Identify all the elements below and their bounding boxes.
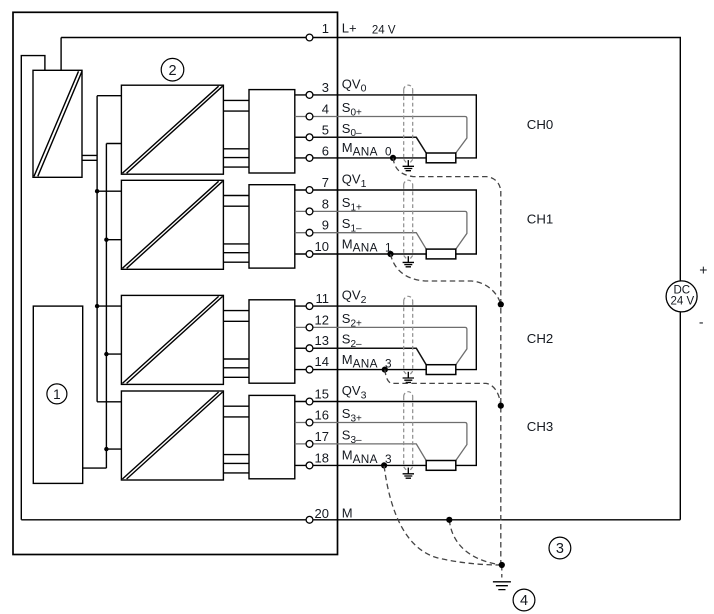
svg-text:1: 1 [53,387,61,402]
svg-text:+: + [699,262,707,278]
svg-text:10: 10 [315,239,329,254]
svg-text:24 V: 24 V [372,25,396,37]
svg-text:18: 18 [315,450,329,465]
svg-text:4: 4 [322,102,329,117]
svg-text:CH1: CH1 [527,212,553,227]
svg-text:CH2: CH2 [527,331,553,346]
svg-text:2: 2 [168,63,176,79]
svg-text:3: 3 [322,80,329,95]
svg-text:M: M [342,506,353,521]
svg-text:CH0: CH0 [527,117,553,132]
svg-text:17: 17 [315,429,329,444]
svg-text:5: 5 [322,123,329,138]
svg-text:15: 15 [315,387,329,402]
svg-text:-: - [699,314,704,330]
svg-text:4: 4 [520,593,528,609]
svg-text:L+: L+ [342,20,357,35]
svg-text:8: 8 [322,196,329,211]
svg-text:11: 11 [316,291,330,306]
svg-text:9: 9 [322,218,329,233]
svg-text:6: 6 [322,144,329,159]
svg-text:CH3: CH3 [527,419,553,434]
svg-text:13: 13 [315,333,329,348]
svg-text:3: 3 [556,541,564,557]
svg-text:DC: DC [673,284,690,296]
svg-text:1: 1 [322,21,329,36]
svg-text:7: 7 [322,175,329,190]
svg-text:12: 12 [315,312,329,327]
svg-text:14: 14 [315,354,329,369]
svg-text:20: 20 [315,506,329,521]
svg-text:16: 16 [315,408,329,423]
svg-text:24 V: 24 V [670,296,694,308]
